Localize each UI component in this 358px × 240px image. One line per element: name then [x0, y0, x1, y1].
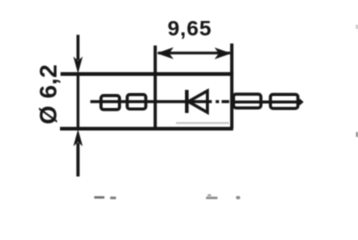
diameter dimension line upper stem — [77, 35, 80, 60]
left lead axis line — [90, 100, 212, 103]
scan shadow line under body — [176, 122, 229, 124]
diode cathode bar — [185, 90, 189, 113]
dimension arrow left — [157, 47, 174, 59]
right lead tip — [296, 99, 303, 106]
right lead axis line — [232, 101, 302, 104]
page edge speck lower — [356, 132, 358, 137]
cropped caption fragment right — [208, 194, 211, 196]
centerline dot — [216, 100, 219, 103]
body bottom edge with left extension — [60, 127, 233, 131]
dimension line 9,65 — [158, 52, 230, 55]
svg-text:Ø 6,2: Ø 6,2 — [35, 64, 62, 124]
right crimp 2 — [270, 94, 298, 108]
diode triangle — [188, 91, 207, 113]
diameter dimension through line — [77, 74, 80, 129]
diameter dimension line lower stem — [76, 143, 79, 177]
extension line / body right edge — [230, 44, 233, 129]
svg-text:9,65: 9,65 — [168, 16, 212, 40]
diameter dimension arrow down — [73, 57, 82, 74]
diameter dimension arrow up — [73, 129, 82, 146]
page edge speck upper — [356, 25, 358, 29]
cropped caption fragment left — [94, 196, 104, 198]
left crimp 2 — [127, 95, 146, 109]
right crimp 1 — [234, 94, 261, 108]
dimension arrow right — [215, 48, 232, 60]
extension line / body left edge — [154, 46, 157, 129]
body top edge with left extension — [61, 72, 234, 76]
left crimp 1 — [101, 96, 120, 110]
centerline dash — [222, 100, 230, 103]
